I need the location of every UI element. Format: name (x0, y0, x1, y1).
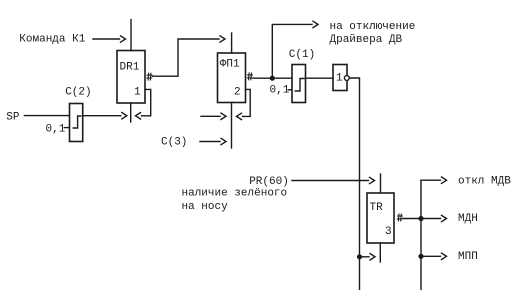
svg-text:МДН: МДН (458, 213, 478, 225)
pin 0,1 dash of C(1) (288, 89, 292, 91)
svg-text:C(1): C(1) (289, 49, 315, 61)
pin # output of ФП1 (247, 73, 252, 80)
svg-text:на отключение: на отключение (330, 21, 416, 33)
wire TR top input stub (380, 174, 382, 193)
svg-text:2: 2 (234, 87, 241, 99)
wire DR1 bottom input stub (130, 103, 132, 122)
wire ФП1 # output to C(1) (253, 77, 292, 79)
wire ФП1 bottom input stub (231, 103, 233, 149)
wire output rail right (420, 180, 422, 290)
input label PR(60) наличие зелёного на носу (182, 176, 289, 213)
svg-text:C(3): C(3) (161, 136, 187, 148)
node junction on rail to TR bottom (357, 254, 362, 259)
wire ФП1 feedback loop (237, 89, 251, 119)
pin # output of TR (397, 214, 402, 221)
svg-text:1: 1 (336, 73, 343, 85)
svg-text:0,1: 0,1 (270, 84, 290, 96)
node junction rail to МПП (418, 254, 423, 259)
node junction at ФП1 output (270, 76, 275, 81)
wire SP to C(2) (25, 115, 70, 117)
one-shot C(1) step symbol (295, 79, 304, 92)
pin # output of DR1 (147, 73, 152, 80)
svg-text:DR1: DR1 (120, 62, 140, 74)
wire ФП1 top input stub (231, 33, 233, 53)
wire branch to МПП (421, 253, 447, 259)
wire TR bottom input stub (379, 243, 381, 262)
wire Команда К1 to DR1 top input (93, 36, 126, 42)
svg-text:3: 3 (385, 226, 392, 238)
one-shot C(1) body (292, 65, 306, 103)
wire TR # output to МДН (403, 215, 447, 221)
svg-text:на носу: на носу (182, 201, 229, 213)
wire C(3) to ФП1 bottom input (200, 138, 226, 144)
svg-text:C(2): C(2) (65, 86, 91, 98)
svg-text:1: 1 (134, 87, 141, 99)
wire PR(60) to TR top input (292, 177, 375, 183)
output label на отключение Драйвера ДВ (330, 21, 416, 46)
block DR1 body (117, 51, 145, 104)
wire DR1 feedback loop (136, 89, 151, 119)
block ФП1 body (218, 53, 246, 103)
svg-text:SP: SP (6, 111, 20, 123)
wire unlabeled input to ФП1 bottom (201, 113, 226, 119)
one-shot C(2) step symbol (73, 116, 81, 128)
wire inverter output down long rail (349, 78, 359, 290)
node junction rail with TR output (418, 216, 423, 221)
block TR body (367, 193, 394, 243)
wire C(1) output to inverter (306, 77, 334, 79)
svg-text:ФП1: ФП1 (220, 59, 240, 71)
wire DR1 # output up and to ФП1 top input (153, 36, 226, 76)
inverter output bubble (344, 76, 349, 81)
svg-text:PR(60): PR(60) (249, 176, 289, 188)
svg-text:TR: TR (370, 202, 384, 214)
svg-text:МПП: МПП (458, 251, 478, 263)
wire branch to откл МДВ (421, 177, 447, 183)
wire C(2) output to DR1 bottom input (83, 113, 127, 119)
svg-text:откл МДВ: откл МДВ (458, 176, 511, 188)
wire branch to TR bottom input (360, 254, 376, 260)
svg-text:Драйвера ДВ: Драйвера ДВ (330, 34, 403, 46)
inverter gate 1 body (333, 65, 347, 91)
one-shot C(2) body (70, 104, 83, 142)
wire DR1 top input stub (130, 20, 132, 51)
svg-text:наличие зелёного: наличие зелёного (182, 187, 288, 199)
pin 0,1 dash of C(2) (64, 127, 69, 129)
wire branch up to Драйвер ДВ output (272, 21, 318, 78)
svg-text:0,1: 0,1 (46, 124, 66, 136)
svg-text:Команда К1: Команда К1 (19, 34, 85, 46)
